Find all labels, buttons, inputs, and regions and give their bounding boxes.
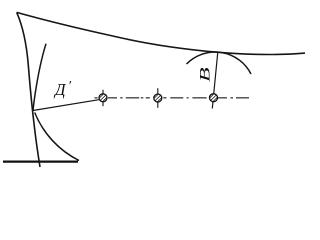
svg-text:Д: Д xyxy=(53,80,67,99)
svg-text:В: В xyxy=(197,67,213,82)
